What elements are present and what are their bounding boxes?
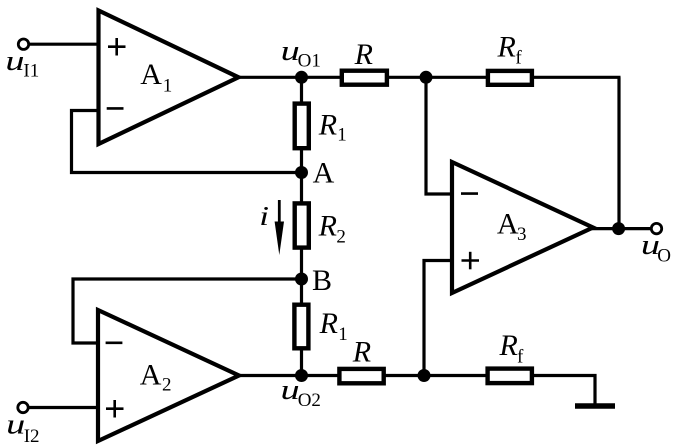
junction: bottom (R / Rf / A3 noninverting) [418,369,431,382]
svg-text:B: B [312,264,332,297]
resistor Rf (top row) [488,31,532,85]
svg-text:2: 2 [162,375,172,396]
svg-text:A: A [140,58,162,91]
wire: bottom junction up to A3 noninverting input [424,261,452,376]
svg-text:I1: I1 [23,60,39,81]
resistor R (bottom row) [339,336,383,384]
svg-text:u: u [5,45,24,77]
wire: A2 output row u_O2 to R to Rf to ground corner [237,376,595,405]
svg-text:1: 1 [338,324,348,345]
node B [295,264,332,297]
svg-text:O1: O1 [298,50,321,71]
svg-text:2: 2 [336,227,346,248]
svg-text:u: u [6,409,25,441]
svg-text:R: R [497,31,516,64]
wire: input terminal u_I1 to A1 noninverting input [29,43,98,46]
terminal u_O [641,223,671,266]
terminal u_I2 [6,402,39,447]
svg-text:R: R [354,38,373,71]
svg-text:f: f [517,347,524,368]
resistor R1 (bottom, between node B and u_O2) [294,305,347,349]
svg-text:R: R [318,210,337,243]
node u_O2 [281,369,321,411]
svg-text:i: i [259,201,269,231]
svg-text:A: A [140,358,162,391]
wire: input terminal u_I2 to A2 noninverting input [29,406,98,409]
node u_O1 [281,35,321,83]
wire: center vertical column u_O1 - A - B - u_O2 [300,77,303,375]
svg-text:A: A [497,208,519,241]
ground [575,403,615,409]
svg-text:R: R [319,307,338,340]
wire: right vertical from Rf top corner down to output node [617,77,620,228]
wire: top junction down to A3 inverting input [426,77,452,194]
svg-text:R: R [318,108,337,141]
resistor R1 (top, between u_O1 and node A) [295,104,347,149]
terminal u_I1 [5,39,39,81]
node: A3 output [612,222,625,235]
current arrow i [259,200,284,255]
svg-text:f: f [515,47,522,68]
node A [295,156,335,189]
svg-text:I2: I2 [24,426,40,447]
resistor Rf (bottom row) [488,329,532,383]
svg-text:O: O [657,245,671,266]
svg-text:3: 3 [517,224,527,245]
wire: A3 output to terminal u_O [591,227,651,230]
svg-text:A: A [313,156,335,189]
op-amp A3 [452,162,593,293]
svg-text:R: R [499,329,518,362]
op-amp A2 [98,310,239,441]
resistor R2 (between node A and node B) [295,203,346,247]
wire: A1 output row u_O1 to R to Rf to right corner [236,76,621,79]
junction: top (R / Rf / A3 inverting) [420,71,433,84]
op-amp A1 [99,11,239,145]
svg-text:R: R [352,336,371,369]
svg-text:1: 1 [163,75,173,96]
wire: A1 feedback from node A left and up to inverting input [72,111,302,173]
svg-text:1: 1 [337,125,347,146]
svg-text:O2: O2 [298,390,321,411]
resistor R (top row) [342,38,387,85]
wire: A2 feedback from node B left and down to inverting input [73,279,302,343]
